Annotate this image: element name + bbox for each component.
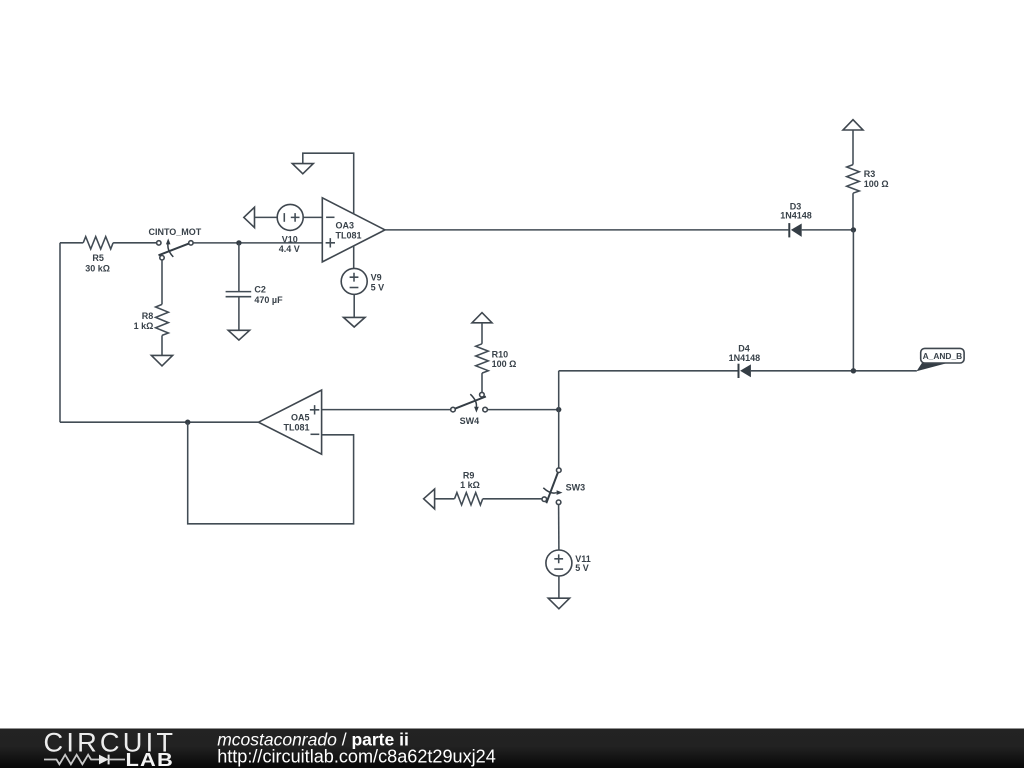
diode D4 <box>729 344 761 378</box>
node flag arrow left of V10 <box>244 207 255 227</box>
svg-text:30 kΩ: 30 kΩ <box>85 263 110 273</box>
svg-text:R8: R8 <box>142 311 154 321</box>
wire flag to R10 <box>481 323 483 344</box>
logo diode <box>99 755 109 765</box>
op-amp OA3 <box>322 198 385 262</box>
svg-text:TL081: TL081 <box>283 423 309 433</box>
bottom bar <box>0 729 1024 768</box>
switch SW3 <box>542 468 585 505</box>
wire R3 to junction <box>852 193 854 230</box>
ground below C2 <box>228 330 249 340</box>
power flag above R3 <box>843 120 863 130</box>
wire left vertical (output loop to R5) <box>59 243 61 422</box>
power flag above R10 <box>472 313 492 323</box>
net flag A_AND_B <box>917 348 965 371</box>
wire flag to V10 <box>255 216 278 218</box>
svg-text:470 µF: 470 µF <box>254 295 283 305</box>
resistor R8 <box>156 304 169 335</box>
wire feedback loop <box>188 422 354 524</box>
wire SW4 to junction <box>487 409 558 411</box>
svg-text:C2: C2 <box>254 285 266 295</box>
wire R9 to SW3 <box>483 498 542 500</box>
svg-text:V9: V9 <box>371 273 382 283</box>
svg-text:5 V: 5 V <box>575 563 589 573</box>
svg-text:OA5: OA5 <box>291 413 310 423</box>
wire SW3 to V11 <box>558 505 560 550</box>
svg-text:5 V: 5 V <box>371 282 385 292</box>
diode D3 <box>780 201 812 237</box>
wire D4 row <box>559 370 739 372</box>
wire R5 row <box>60 242 83 244</box>
capacitor C2 <box>226 285 284 305</box>
svg-text:R3: R3 <box>864 169 876 179</box>
resistor R5 <box>83 237 113 249</box>
svg-text:1N4148: 1N4148 <box>780 211 812 221</box>
svg-text:CINTO_MOT: CINTO_MOT <box>148 227 201 237</box>
svg-text:V10: V10 <box>282 234 298 244</box>
svg-text:100 Ω: 100 Ω <box>492 359 517 369</box>
wire vertical D4 row to SW3 <box>558 371 560 468</box>
svg-text:1N4148: 1N4148 <box>729 353 761 363</box>
wire D3 to junction <box>802 229 854 231</box>
wire OA3 bottom supply to V9 <box>353 246 355 269</box>
voltage source V10 <box>277 204 303 254</box>
svg-text:R9: R9 <box>463 470 475 480</box>
svg-text:LAB: LAB <box>126 751 174 768</box>
wire C2 bottom <box>238 297 240 331</box>
wire C2 top <box>238 243 240 292</box>
wire flag to R3 <box>852 130 854 165</box>
wire junction down to D4 row <box>852 230 854 371</box>
wire OA3 output row <box>385 229 788 231</box>
wire flag to R9 <box>435 498 455 500</box>
wire OA3 top supply to ground <box>303 153 354 214</box>
wire OA5 output to left <box>60 421 259 423</box>
ground below V9 <box>344 317 366 327</box>
svg-text:4.4 V: 4.4 V <box>279 244 300 254</box>
svg-text:TL081: TL081 <box>336 230 362 240</box>
node junction D3/R3 <box>851 227 856 232</box>
wire R8 to ground <box>161 335 163 355</box>
op-amp OA5 <box>259 390 322 454</box>
switch SW4 <box>451 392 488 426</box>
voltage source V11 <box>546 550 591 576</box>
wire switch lower to R8 <box>161 260 163 305</box>
wire D4 to flag <box>751 370 917 372</box>
svg-text:A_AND_B: A_AND_B <box>923 351 963 361</box>
svg-text:OA3: OA3 <box>336 220 355 230</box>
node junction C2 top <box>236 240 241 245</box>
wire switch to + input of OA3 <box>193 242 322 244</box>
ground below V11 <box>548 598 569 609</box>
wire R10 to SW4 <box>481 373 483 392</box>
wire OA5 plus input to SW4 <box>322 409 451 411</box>
logo resistor <box>44 755 99 765</box>
ground below R8 <box>151 355 172 366</box>
wire V11 to ground <box>558 576 560 598</box>
svg-text:SW3: SW3 <box>566 483 586 493</box>
wire V9 to ground <box>353 294 355 317</box>
svg-text:1 kΩ: 1 kΩ <box>134 321 154 331</box>
node junction SW4/SW3 <box>556 407 561 412</box>
resistor R3 <box>847 165 860 194</box>
node junction feedback <box>185 420 190 425</box>
switch CINTO_MOT <box>148 227 201 260</box>
svg-text:SW4: SW4 <box>460 416 480 426</box>
resistor R10 <box>476 344 489 373</box>
svg-text:1 kΩ: 1 kΩ <box>460 480 480 490</box>
ground top of OA3 <box>292 164 313 174</box>
svg-text:http://circuitlab.com/c8a62t29: http://circuitlab.com/c8a62t29uxj24 <box>217 747 496 767</box>
svg-text:100 Ω: 100 Ω <box>864 179 889 189</box>
svg-text:R5: R5 <box>92 253 104 263</box>
svg-text:R10: R10 <box>492 349 509 359</box>
voltage source V9 <box>341 268 384 294</box>
node junction D4 row <box>851 368 856 373</box>
wire V10 to OA3 minus input <box>303 216 322 218</box>
resistor R9 <box>455 493 483 505</box>
node flag arrow left of R9 <box>424 489 435 509</box>
wire R5 to switch <box>113 242 157 244</box>
